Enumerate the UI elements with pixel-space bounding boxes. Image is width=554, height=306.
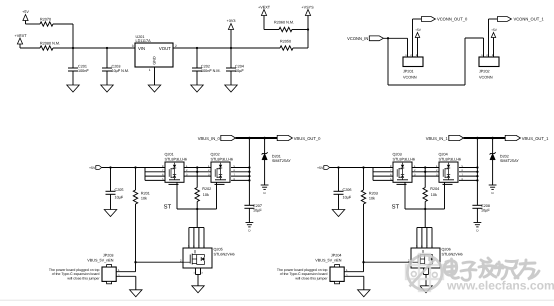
jumper JP204 [315,254,344,284]
wire U201 GND pin [154,67,156,85]
svg-text:+5V: +5V [317,166,324,170]
svg-text:R204: R204 [430,187,439,191]
svg-text:10k: 10k [431,193,437,197]
wire +5V rail VBUS_IN_1 [330,167,393,169]
svg-text:+5V: +5V [491,28,498,32]
ground C203 [101,85,114,92]
wire R2050 to +VSYS [293,30,308,49]
net flag VCONN_OUT_1 [497,17,544,22]
resistor R2070 [40,17,53,26]
node C junction C206 [337,166,339,168]
node C204 junction [230,47,232,49]
transistor Q202 [211,152,234,184]
wire VBUS to C207 [248,138,250,205]
node C203 junction [106,47,108,49]
power flag +VSYS [301,6,314,30]
ground C205 [104,210,117,217]
text ST label Q203 [392,204,400,211]
border bottom edge [0,300,554,301]
wire VCONN_IN to JP201 [383,37,407,39]
power flag +5V block VBUS_IN_0 [89,166,102,171]
wire gate Q205 [134,258,183,263]
svg-text:VCONN: VCONN [479,75,493,79]
net flag VBUS_IN_1 [426,135,464,140]
ground D202 [489,185,497,195]
svg-text:D202: D202 [500,154,509,158]
wire +VEXT to R2080 [20,47,40,49]
ground JP203 pin2 [130,290,143,297]
transistor Q205 [183,245,235,268]
transistor Q206 [411,245,463,268]
svg-text:SM4T25AY: SM4T25AY [500,159,519,163]
wire +VEXT2 to R2060 [264,29,279,31]
svg-text:Q202: Q202 [211,152,220,156]
svg-text:Q204: Q204 [439,152,448,156]
ground C208 [474,223,482,233]
wire middle pin fan Q203 Q204 [412,165,439,177]
svg-text:R203: R203 [369,192,378,196]
svg-text:C208: C208 [481,204,490,208]
svg-text:10µF N.M.: 10µF N.M. [112,69,130,73]
capacitor C203 [102,48,129,85]
node VCONN_IN junction [387,37,389,39]
ground U201 [148,85,161,92]
svg-text:JP203: JP203 [103,254,114,258]
capacitor C201 [68,48,89,85]
svg-text:1: 1 [149,68,151,72]
svg-text:VBUS_5V_nEN: VBUS_5V_nEN [315,258,342,262]
svg-text:100nF: 100nF [78,69,89,73]
jumper JP203 [87,254,116,284]
wire JP204 pin2 [344,274,364,290]
wire R2080 to VIN [53,47,135,49]
svg-text:10µF: 10µF [235,69,244,73]
svg-text:STL8P3LLH6: STL8P3LLH6 [211,158,234,162]
svg-text:R201: R201 [141,192,150,196]
net flag VCONN_IN [347,36,383,41]
resistor R202 [195,176,211,209]
svg-text:VBUS_OUT_1: VBUS_OUT_1 [522,136,549,141]
svg-text:R2050: R2050 [280,40,291,44]
svg-text:C201: C201 [78,64,87,68]
svg-text:VCONN_OUT_0: VCONN_OUT_0 [437,17,468,22]
watermark elecfans logo [406,254,554,293]
svg-text:+VEXT: +VEXT [15,34,28,38]
svg-text:STL8P3LLH6: STL8P3LLH6 [393,158,416,162]
wire JP202 pin2 to out [489,19,498,57]
capacitor C202 [192,48,221,85]
ground C206 [332,210,345,217]
net flag VCONN_OUT_0 [421,17,468,22]
node C201 junction [72,47,74,49]
resistor R204 [423,176,439,209]
net flag VBUS_OUT_0 [277,135,321,140]
wire VOUT rail [173,47,280,49]
svg-text:ST: ST [392,204,400,211]
svg-text:will close this jumper: will close this jumper [67,276,100,280]
wire node down [72,24,74,48]
svg-text:+5V: +5V [415,28,422,32]
node VSYS junction [307,28,309,30]
power flag +5V [22,10,29,24]
svg-text:will close this jumper: will close this jumper [295,276,328,280]
resistor R2080 N.M. [40,41,60,50]
node C207 junction [248,137,251,140]
svg-text:R2060 N.M.: R2060 N.M. [274,21,294,25]
ground C202 [191,85,204,92]
capacitor C207 [244,204,262,223]
svg-text:R2070: R2070 [40,17,51,21]
svg-text:VCONN_IN: VCONN_IN [347,36,368,41]
svg-text:10k: 10k [141,197,147,201]
svg-text:VBUS_OUT_0: VBUS_OUT_0 [294,136,321,141]
svg-text:Q206: Q206 [442,248,451,252]
capacitor C206 [334,168,352,210]
wire R2060 to node [292,29,308,31]
resistor R201 [133,168,150,263]
svg-text:+3V3: +3V3 [227,19,236,23]
svg-text:C207: C207 [253,204,262,208]
wire source bus Q201 Q202 [177,182,217,248]
svg-text:STL6N2VH6: STL6N2VH6 [214,252,235,256]
power flag +5V JP202 [491,28,498,57]
text note JP203 [49,268,100,280]
svg-text:SM4T25AY: SM4T25AY [272,159,291,163]
svg-text:10µF: 10µF [115,196,124,200]
svg-text:10k: 10k [203,193,209,197]
transistor Q204 [439,152,462,184]
svg-text:Q203: Q203 [393,152,402,156]
text ST label Q201 [164,204,172,211]
svg-text:Q201: Q201 [165,152,174,156]
capacitor C205 [106,168,124,210]
resistor R2060 N.M. [274,21,294,32]
svg-text:JP201: JP201 [403,69,414,73]
node R junction R201 [134,166,136,168]
svg-text:VBUS_5V_nEN: VBUS_5V_nEN [87,258,114,262]
svg-text:JP202: JP202 [479,69,490,73]
wire gate Q206 [362,258,411,263]
wire JP201 pin1 [407,38,409,57]
svg-text:+5V: +5V [89,166,96,170]
svg-text:100nF N.M.: 100nF N.M. [201,69,221,73]
ground C207 [246,223,254,233]
svg-text:VCONN: VCONN [403,75,417,79]
wire source Q206 [421,268,431,286]
svg-text:VBUS_IN_1: VBUS_IN_1 [426,136,449,141]
wire source bus Q203 Q204 [405,182,445,248]
svg-text:VIN: VIN [138,46,145,51]
wire VBUS to C208 [476,138,478,205]
resistor R2050 [280,40,293,51]
svg-text:ST: ST [164,204,172,211]
jumper JP201 [403,54,423,79]
node D201 junction [263,137,266,140]
node C202 junction [196,47,198,49]
ground C201 [67,85,80,92]
ground JP204 pin2 [358,290,371,297]
wire +5V to R2070 [26,23,41,25]
power flag +5V JP201 [415,28,422,57]
svg-text:VCONN_OUT_1: VCONN_OUT_1 [514,17,545,22]
svg-text:JP204: JP204 [331,254,342,258]
wire left pin fan Q201 [145,165,165,181]
svg-text:+VSYS: +VSYS [301,6,314,10]
resistor R203 [361,168,378,263]
svg-text:C205: C205 [115,188,124,192]
svg-text:C204: C204 [235,64,244,68]
svg-text:C206: C206 [343,188,352,192]
svg-text:www.elecfans.com: www.elecfans.com [446,279,554,293]
wire source Q205 [193,268,203,286]
svg-text:STL8P3LLH6: STL8P3LLH6 [439,158,462,162]
wire JP201 pin2 to out [413,19,422,57]
svg-text:GND: GND [153,56,157,65]
wire JP204 pin1 [344,262,363,272]
text note JP204 [277,268,328,280]
diode D201 [262,138,292,185]
svg-text:STL8P3LLH6: STL8P3LLH6 [165,158,188,162]
wire right pin fan Q202 [231,165,251,182]
ground C204 [225,85,238,92]
svg-text:VOUT: VOUT [159,46,171,51]
node R junction R203 [362,166,364,168]
svg-text:Q205: Q205 [214,248,223,252]
node D202 junction [491,137,494,140]
wire JP202 pin1 [483,38,485,57]
wire JP203 pin2 [116,274,136,290]
op-amp U201 regulator LD1117A [132,35,177,72]
transistor Q201 [165,152,188,184]
wire VCONN bottom rail [388,38,484,85]
svg-text:VBUS_IN_0: VBUS_IN_0 [198,136,221,141]
svg-text:10µF: 10µF [253,209,262,213]
net flag VBUS_IN_0 [198,135,236,140]
svg-text:C203: C203 [112,64,121,68]
node C208 junction [476,137,479,140]
power flag +VEXT 2 [258,6,271,30]
ground Q205 source [192,286,205,293]
wire VBUS line VBUS_IN_0 [236,137,278,139]
svg-text:10k: 10k [369,197,375,201]
ground Q206 source [420,286,433,293]
svg-text:+VEXT: +VEXT [258,6,271,10]
transistor Q203 [393,152,416,184]
svg-text:STL6N2VH6: STL6N2VH6 [442,252,463,256]
wire JP203 pin1 [116,262,135,272]
wire VBUS line VBUS_IN_1 [464,137,506,139]
svg-text:R2080 N.M.: R2080 N.M. [40,41,60,45]
capacitor C204 [226,48,244,85]
wire middle pin fan Q201 Q202 [184,165,211,177]
jumper JP202 [479,54,499,79]
wire +5V rail VBUS_IN_0 [102,167,165,169]
ground D201 [261,185,269,195]
svg-text:3: 3 [132,44,134,48]
svg-text:LD1117A: LD1117A [136,39,152,43]
power flag +3V3 [227,19,236,48]
svg-text:D201: D201 [272,154,281,158]
node C junction C205 [109,166,111,168]
svg-text:+5V: +5V [22,10,29,14]
capacitor C208 [472,204,490,223]
svg-text:C202: C202 [201,64,210,68]
svg-text:10µF: 10µF [343,196,352,200]
power flag +5V block VBUS_IN_1 [317,166,330,171]
wire right pin fan Q204 [459,165,479,182]
power flag +VEXT [15,34,28,48]
wire left pin fan Q203 [373,165,393,181]
svg-text:R202: R202 [202,187,211,191]
svg-text:10µF: 10µF [481,209,490,213]
wire R2070 to node [53,23,73,25]
net flag VBUS_OUT_1 [505,135,549,140]
diode D202 [490,138,520,185]
